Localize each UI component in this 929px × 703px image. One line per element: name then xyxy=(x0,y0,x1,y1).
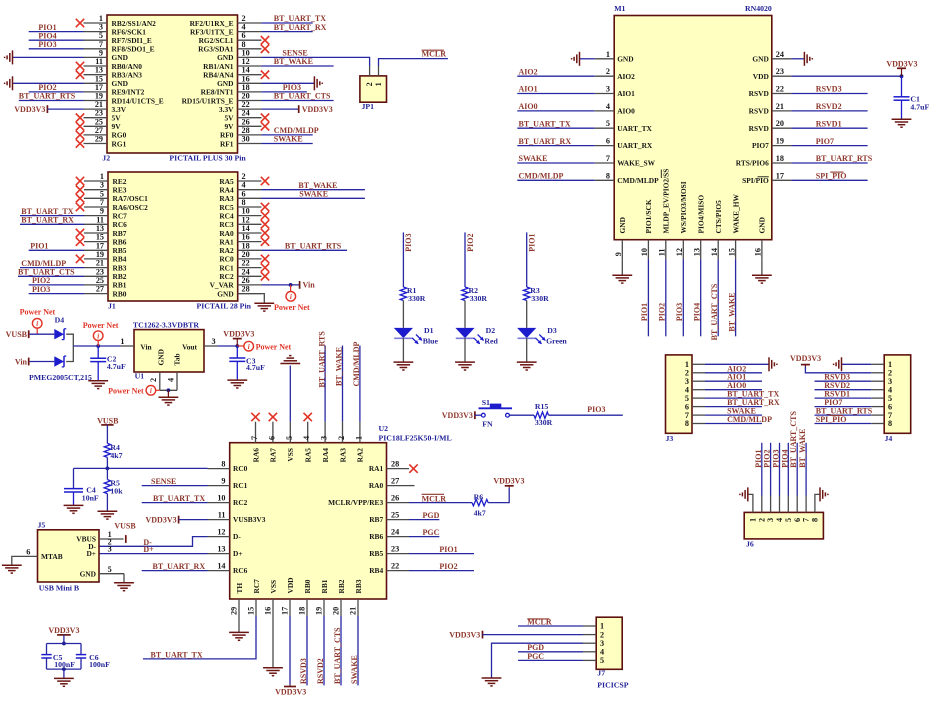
wire BT_UART_RX to J1 pin11 xyxy=(20,223,84,225)
wire PIO3 from J2 pin18 xyxy=(262,91,307,93)
M1 pin 2 stub xyxy=(595,75,615,77)
no-connect X on J2 pin 11 xyxy=(76,62,84,70)
svg-text:2: 2 xyxy=(365,82,374,86)
svg-text:SPI_PIO: SPI_PIO xyxy=(816,415,847,424)
svg-text:BT_WAKE: BT_WAKE xyxy=(727,292,736,331)
wire SWAKE to M1 pin7 xyxy=(517,162,594,164)
svg-text:Power Net: Power Net xyxy=(256,343,292,352)
wire MCLR from JP1 pin1 xyxy=(379,59,448,66)
svg-text:USB Mini B: USB Mini B xyxy=(39,583,79,592)
svg-text:GND: GND xyxy=(752,54,768,63)
svg-text:RSVD3: RSVD3 xyxy=(299,658,308,684)
module M1 RN4020 body xyxy=(614,16,772,240)
U2 pin 14 stub xyxy=(208,570,230,572)
wire AIO0 from J3 pin 4 xyxy=(705,389,762,391)
svg-text:AIO1: AIO1 xyxy=(617,89,635,98)
svg-text:3: 3 xyxy=(606,85,610,94)
svg-text:RSVD2: RSVD2 xyxy=(816,102,842,111)
wire BT_UART_RX to M1 pin6 xyxy=(517,145,594,147)
no-connect X on U2 pin28 xyxy=(409,464,417,472)
svg-text:SPI_PIO: SPI_PIO xyxy=(816,172,847,181)
svg-text:7: 7 xyxy=(606,154,610,163)
ground at C3 xyxy=(227,380,247,388)
svg-text:330R: 330R xyxy=(535,418,553,427)
svg-text:VDD: VDD xyxy=(286,577,295,593)
J1 pin 1 stub xyxy=(84,180,108,182)
svg-text:PIO3: PIO3 xyxy=(587,405,605,414)
svg-text:6: 6 xyxy=(26,548,30,557)
svg-text:MCLR: MCLR xyxy=(422,494,447,503)
svg-text:RB5: RB5 xyxy=(369,549,383,558)
no-connect X on J1 pin 8 xyxy=(261,203,269,211)
ground at J6 pin1 xyxy=(740,487,748,501)
junction C5/C6 bottom xyxy=(62,667,66,671)
svg-text:15: 15 xyxy=(96,233,104,242)
M1 pin 11 stub xyxy=(665,240,667,260)
wire BT_UART_CTS to J6 pin 6 xyxy=(796,443,798,496)
J1 pin 27 stub xyxy=(84,293,108,295)
no-connect X on J2 pin 23 xyxy=(76,114,84,122)
svg-text:VDD3V3: VDD3V3 xyxy=(442,411,473,420)
U2 pin 15 stub (bottom) xyxy=(255,599,257,616)
svg-text:12: 12 xyxy=(675,248,684,256)
svg-text:22: 22 xyxy=(776,85,784,94)
J7 pin 5 stub xyxy=(583,659,596,661)
svg-text:BT_UART_TX: BT_UART_TX xyxy=(519,119,571,128)
svg-text:330R: 330R xyxy=(408,294,426,303)
overline on M1 MLDP_EV/PIO2/SS pin name (SS) xyxy=(660,170,662,179)
svg-text:11: 11 xyxy=(95,57,103,66)
svg-text:2: 2 xyxy=(337,436,346,440)
no-connect X on J2 pin 1 xyxy=(76,19,84,27)
wire C4 to ground xyxy=(73,492,75,505)
wire U1 gnd rail xyxy=(160,389,177,391)
svg-text:1: 1 xyxy=(606,50,610,59)
J7 pin 1 stub xyxy=(583,625,596,627)
junction R4/R5/C4/RC0 xyxy=(106,467,110,471)
svg-text:2: 2 xyxy=(149,378,158,382)
wire R4 to junction xyxy=(106,457,108,468)
J1 pin 14 stub xyxy=(238,232,262,234)
J6 pin 3 stub xyxy=(770,496,772,513)
M1 pin 1 stub xyxy=(595,58,615,60)
power net probe stem U1 out xyxy=(237,345,244,347)
svg-text:RC0: RC0 xyxy=(233,464,248,473)
connector J2 PICTAIL PLUS 30 Pin body xyxy=(107,15,238,153)
wire RSVD2 from U2 pin 19 xyxy=(323,616,325,685)
J2 pin 9 stub xyxy=(84,56,108,58)
wire AIO1 to M1 pin3 xyxy=(517,93,594,95)
svg-text:RC6: RC6 xyxy=(113,220,128,229)
svg-text:VDD3V3: VDD3V3 xyxy=(14,105,45,114)
J2 pin 22 stub xyxy=(238,108,262,110)
svg-text:21: 21 xyxy=(96,259,104,268)
svg-text:AIO2: AIO2 xyxy=(519,67,538,76)
U2 pin 21 stub (bottom) xyxy=(357,599,359,616)
no-connect X on J1 pin 3 xyxy=(76,186,84,194)
wire S1 to R15 xyxy=(509,414,534,416)
svg-text:PIO2: PIO2 xyxy=(763,449,772,467)
svg-text:4.7uF: 4.7uF xyxy=(910,103,929,112)
J1 pin 9 stub xyxy=(84,215,108,217)
J1 pin 16 stub xyxy=(238,241,262,243)
svg-text:RC6: RC6 xyxy=(233,566,248,575)
U1 pin 4 stub (Tab) xyxy=(176,372,178,390)
U2 pin 13 stub xyxy=(208,553,230,555)
J3 pin 2 stub xyxy=(692,372,705,374)
svg-text:i: i xyxy=(36,320,38,328)
J1 pin 2 stub xyxy=(238,180,262,182)
wire PIO1 to J2 pin3 xyxy=(29,31,84,33)
wire M1 pin1 to ground xyxy=(580,58,595,60)
svg-text:GND: GND xyxy=(156,349,165,365)
no-connect X on J1 pin 14 xyxy=(261,229,269,237)
svg-text:FN: FN xyxy=(482,420,493,429)
U1 pin 3 stub xyxy=(204,345,218,347)
resistor R2 330R xyxy=(462,287,468,301)
wire to ground C5/C6 xyxy=(63,669,65,678)
svg-text:RA3: RA3 xyxy=(219,194,234,203)
ground at M1 pin1 xyxy=(572,52,580,66)
ground at U2 TH xyxy=(229,632,249,640)
J2 pin 12 stub xyxy=(238,65,262,67)
wire BT_UART_RTS from J1 pin18 xyxy=(262,249,348,251)
no-connect X on J1 pin 10 xyxy=(261,211,269,219)
wire SWAKE from J3 pin 7 xyxy=(705,414,762,416)
M1 pin 10 stub xyxy=(647,240,649,260)
power port VDD3V3 at R6 xyxy=(508,486,510,488)
J6 pin 5 stub xyxy=(787,496,789,513)
J4 pin 8 stub xyxy=(871,423,884,425)
switch S1 FN xyxy=(479,408,513,417)
J2 pin 13 stub xyxy=(84,74,108,76)
svg-text:Red: Red xyxy=(484,337,498,346)
J1 pin 15 stub xyxy=(84,241,108,243)
wire BT_UART_RX to U2 pin14 xyxy=(142,570,208,572)
ground at J2 pin16 xyxy=(314,76,322,90)
J1 pin 24 stub xyxy=(238,275,262,277)
U2 pin 7 stub (top) xyxy=(255,422,257,443)
svg-text:12: 12 xyxy=(217,528,225,537)
wire PIO1 from U2 pin23 xyxy=(409,553,474,555)
svg-text:RC1: RC1 xyxy=(233,481,248,490)
J4 pin 6 stub xyxy=(871,406,884,408)
wire CMD/MLDP to J1 pin21 xyxy=(20,267,84,269)
M1 pin 8 stub xyxy=(595,179,615,181)
no-connect X on J2 pin 14 xyxy=(261,71,269,79)
power net indicator circle U1 out xyxy=(244,341,254,351)
svg-text:4.7uF: 4.7uF xyxy=(107,362,126,371)
svg-text:30: 30 xyxy=(242,135,250,144)
svg-text:23: 23 xyxy=(776,67,784,76)
svg-text:26: 26 xyxy=(242,276,250,285)
svg-text:24: 24 xyxy=(776,50,784,59)
wire D- to U2 pin12 xyxy=(99,537,208,547)
J2 pin 25 stub xyxy=(84,125,108,127)
svg-text:2: 2 xyxy=(606,67,610,76)
svg-text:20: 20 xyxy=(332,607,341,615)
wire PGC to J7 pin5 xyxy=(518,659,583,661)
M1 pin 3 stub xyxy=(595,93,615,95)
wire BT_WAKE from J1 pin4 xyxy=(262,189,365,191)
wire J5 GND to ground xyxy=(123,574,125,583)
no-connect X on J2 pin 24 xyxy=(261,114,269,122)
svg-text:5: 5 xyxy=(100,189,104,198)
svg-text:Vout: Vout xyxy=(182,342,197,351)
wire RSVD2 from J4 pin 4 xyxy=(815,389,872,391)
svg-text:MLDP_EV/PIO2/SS: MLDP_EV/PIO2/SS xyxy=(662,169,671,234)
wire J6 pin8 to ground xyxy=(815,494,820,495)
svg-text:RA3: RA3 xyxy=(338,448,347,463)
svg-text:J5: J5 xyxy=(38,521,46,530)
svg-text:4: 4 xyxy=(775,518,784,522)
svg-text:RB3: RB3 xyxy=(113,263,127,272)
svg-text:100nF: 100nF xyxy=(89,660,110,669)
power net indicator circle U1 gnd xyxy=(146,386,156,396)
wire J3 pin1 to ground xyxy=(705,363,769,365)
J6 pin 7 stub xyxy=(805,496,807,513)
M1 pin 7 stub xyxy=(595,162,615,164)
wire PIO7 from M1 pin 19 xyxy=(791,145,867,147)
svg-text:PICICSP: PICICSP xyxy=(597,680,628,689)
svg-text:PICTAIL 28 Pin: PICTAIL 28 Pin xyxy=(197,301,252,310)
J1 pin 17 stub xyxy=(84,249,108,251)
power port VDD3V3 at J2 pin21 xyxy=(46,105,48,113)
J3 pin 5 stub xyxy=(692,397,705,399)
wire AIO1 from J3 pin 3 xyxy=(705,380,762,382)
no-connect X on J2 pin 8 xyxy=(261,45,269,53)
J1 pin 20 stub xyxy=(238,258,262,260)
M1 pin 22 stub xyxy=(772,93,792,95)
svg-text:CMD/MLDP: CMD/MLDP xyxy=(352,342,361,387)
svg-text:PIO3: PIO3 xyxy=(404,234,413,252)
wire R6 to VDD3V3 xyxy=(488,488,509,503)
J2 pin 19 stub xyxy=(84,100,108,102)
svg-text:RB6: RB6 xyxy=(113,237,127,246)
no-connect X on J2 pin 6 xyxy=(261,36,269,44)
connector J3 body xyxy=(666,355,693,433)
svg-text:RB6: RB6 xyxy=(369,532,383,541)
svg-text:21: 21 xyxy=(349,607,358,615)
ground at D3 xyxy=(517,362,537,370)
wire U2 pin29 TH to ground xyxy=(238,616,240,632)
svg-text:GND: GND xyxy=(80,569,96,578)
J2 pin 18 stub xyxy=(238,91,262,93)
svg-text:Power Net: Power Net xyxy=(108,387,144,396)
svg-text:5: 5 xyxy=(606,119,610,128)
svg-text:CMD/MLDP: CMD/MLDP xyxy=(727,415,772,424)
wire BT_UART_TX to J1 pin9 xyxy=(20,215,84,217)
J5 pin3 stub D+ xyxy=(98,553,100,555)
M1 pin 21 stub xyxy=(772,110,792,112)
svg-text:RA5: RA5 xyxy=(304,448,313,463)
wire J7 pin3 to ground xyxy=(492,643,584,677)
svg-text:19: 19 xyxy=(315,607,324,615)
wire R3 to D3 xyxy=(526,301,528,328)
U2 pin 27 stub xyxy=(387,485,410,487)
svg-text:RB4: RB4 xyxy=(369,566,383,575)
svg-text:25: 25 xyxy=(391,511,399,520)
svg-text:PIO2: PIO2 xyxy=(658,303,667,321)
resistor R1 330R xyxy=(400,287,406,301)
J3 pin 4 stub xyxy=(692,389,705,391)
connector J1 PICTAIL 28 Pin body xyxy=(108,172,238,301)
wire J2 pin22 to VDD3V3 xyxy=(262,108,299,110)
svg-text:20: 20 xyxy=(242,250,250,259)
svg-text:PIO2: PIO2 xyxy=(32,276,50,285)
svg-text:MCLR: MCLR xyxy=(422,50,447,59)
svg-text:i: i xyxy=(290,293,292,301)
svg-text:18: 18 xyxy=(776,154,784,163)
svg-text:PMEG2005CT,215: PMEG2005CT,215 xyxy=(29,373,92,382)
svg-text:19: 19 xyxy=(776,137,784,146)
svg-text:11: 11 xyxy=(96,215,104,224)
J1 pin 19 stub xyxy=(84,258,108,260)
M1 pin 18 stub xyxy=(772,162,792,164)
capacitor C6 100nF xyxy=(76,654,86,656)
J2 pin 7 stub xyxy=(84,48,108,50)
wire M1 pin9 to ground xyxy=(621,259,623,275)
J1 pin 25 stub xyxy=(84,284,108,286)
svg-text:1: 1 xyxy=(354,436,363,440)
wire R1 to D1 xyxy=(402,301,404,328)
wire VDD3V3 to C5/C6 rail xyxy=(63,635,65,644)
J1 pin 23 stub xyxy=(84,275,108,277)
wire junction to C4 xyxy=(74,467,108,469)
wire BT_UART_TX from J3 pin 5 xyxy=(705,397,762,399)
wire BT_UART_TX from J2 pin2 xyxy=(262,22,313,24)
wire D+ to U2 pin13 xyxy=(99,553,208,555)
ground at D1 xyxy=(394,362,414,370)
U1 pin 1 stub xyxy=(121,345,135,347)
J1 pin 5 stub xyxy=(84,197,108,199)
svg-text:J1: J1 xyxy=(108,301,116,310)
J2 pin 5 stub xyxy=(84,39,108,41)
J2 pin 30 stub xyxy=(238,143,262,145)
capacitor C5 100nF xyxy=(41,654,51,656)
svg-text:BT_UART_TX: BT_UART_TX xyxy=(153,494,205,503)
J1 pin 21 stub xyxy=(84,267,108,269)
wire BT_UART_RTS to J2 pin19 xyxy=(19,100,84,102)
svg-text:PIO1: PIO1 xyxy=(640,303,649,321)
J2 pin 26 stub xyxy=(238,125,262,127)
J1 pin 26 stub xyxy=(238,284,262,286)
svg-text:PIO4: PIO4 xyxy=(693,303,702,321)
svg-text:CMD/MLDP: CMD/MLDP xyxy=(617,176,659,185)
svg-text:28: 28 xyxy=(391,460,399,469)
connector J7 PICICSP body xyxy=(596,617,622,669)
svg-text:RA7/OSC1: RA7/OSC1 xyxy=(113,194,149,203)
svg-text:BT_UART_RTS: BT_UART_RTS xyxy=(285,242,342,251)
wire VDD M1 pin23 to VDD3V3 and C1 xyxy=(791,75,901,77)
M1 pin 15 stub xyxy=(735,240,737,260)
svg-text:PIO4: PIO4 xyxy=(780,449,789,467)
svg-text:24: 24 xyxy=(391,528,399,537)
no-connect X on J1 pin 24 xyxy=(261,272,269,280)
svg-text:GND: GND xyxy=(217,289,233,298)
svg-text:VDD3V3: VDD3V3 xyxy=(145,515,176,524)
svg-text:4: 4 xyxy=(606,102,610,111)
svg-text:29: 29 xyxy=(95,135,103,144)
M1 pin 16 stub xyxy=(761,240,763,260)
wire PIO3 from M1 pin 12 xyxy=(682,259,684,336)
power port Vin at J1 pin26 xyxy=(299,281,301,289)
svg-text:SWAKE: SWAKE xyxy=(519,154,548,163)
J3 pin 7 stub xyxy=(692,414,705,416)
svg-text:VDD3V3: VDD3V3 xyxy=(886,59,917,68)
wire SPI_PIO from J4 pin 8 xyxy=(815,423,872,425)
power port VDD3V3 at J2 pin22 xyxy=(298,105,300,113)
U2 pin 2 stub (top) xyxy=(342,422,344,443)
wire M1 pin24 to ground xyxy=(791,58,804,60)
svg-text:8: 8 xyxy=(606,171,610,180)
resistor R4 4k7 xyxy=(104,443,110,457)
no-connect X on J1 pin 13 xyxy=(76,229,84,237)
J4 pin 1 stub xyxy=(871,363,884,365)
junction U1 gnd xyxy=(167,388,171,392)
svg-text:9: 9 xyxy=(614,252,623,256)
svg-text:D4: D4 xyxy=(55,315,65,324)
wire PIO4 to J2 pin5 xyxy=(29,39,84,41)
ground at M1 pin16 xyxy=(752,275,772,283)
J4 pin 7 stub xyxy=(871,414,884,416)
svg-text:10k: 10k xyxy=(110,486,123,495)
power net indicator circle D4 out xyxy=(93,331,103,341)
J3 pin 3 stub xyxy=(692,380,705,382)
svg-text:BT_UART_CTS: BT_UART_CTS xyxy=(274,92,331,101)
wire PIO4 to J6 pin 5 xyxy=(787,443,789,496)
U2 pin 26 stub xyxy=(387,502,410,504)
wire BT_UART_CTS from M1 pin 14 xyxy=(717,259,719,336)
svg-text:RC7: RC7 xyxy=(252,579,261,594)
svg-text:BT_UART_RTS: BT_UART_RTS xyxy=(816,154,873,163)
wire BT_WAKE to U2 pin2 xyxy=(342,346,344,422)
svg-text:MTAB: MTAB xyxy=(41,552,63,561)
capacitor C4 10nF xyxy=(64,488,83,490)
svg-text:SWAKE: SWAKE xyxy=(350,655,359,684)
J2 pin 16 stub xyxy=(238,82,262,84)
M1 pin 5 stub xyxy=(595,127,615,129)
J2 pin 24 stub xyxy=(238,117,262,119)
no-connect X on J1 pin 7 xyxy=(76,203,84,211)
svg-text:RC7: RC7 xyxy=(113,211,128,220)
M1 pin 20 stub xyxy=(772,127,792,129)
wire VUSB to D4 xyxy=(30,333,55,335)
diode D4b (Vin) xyxy=(54,356,64,366)
ground at J2 pin9 xyxy=(5,50,13,64)
wire SWAKE from U2 pin 21 xyxy=(357,616,359,685)
J1 pin 22 stub xyxy=(238,267,262,269)
svg-text:R6: R6 xyxy=(474,492,484,501)
U2 pin 1 stub (top) xyxy=(359,422,361,443)
svg-text:PIO3: PIO3 xyxy=(675,303,684,321)
svg-text:RC4: RC4 xyxy=(219,211,234,220)
wire D1 to ground xyxy=(402,338,404,362)
power net probe stem xyxy=(290,285,292,292)
capacitor C1 xyxy=(901,76,903,97)
svg-text:17: 17 xyxy=(281,607,290,615)
wire C3 to ground xyxy=(236,361,238,379)
svg-text:VDD3V3: VDD3V3 xyxy=(790,354,821,363)
svg-text:330R: 330R xyxy=(531,294,549,303)
U2 pin 10 stub xyxy=(208,502,230,504)
J1 pin 6 stub xyxy=(238,197,262,199)
wire BT_UART_CTS from U2 pin 20 xyxy=(340,616,342,685)
svg-text:13: 13 xyxy=(693,248,702,256)
wire BT_WAKE from J2 pin12 xyxy=(262,65,334,67)
wire BT_UART_TX to U2 pin10 xyxy=(142,502,208,504)
J2 pin 17 stub xyxy=(84,91,108,93)
